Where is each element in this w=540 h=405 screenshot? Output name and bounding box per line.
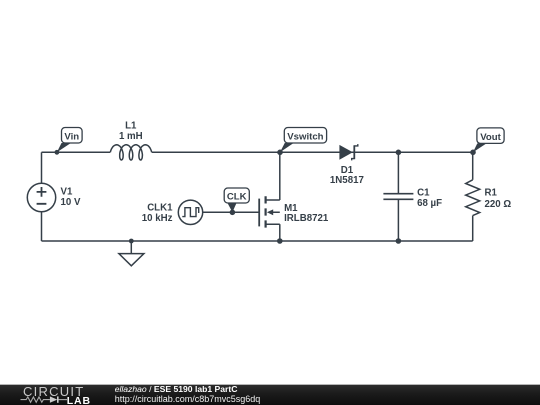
wire R1 bottom bbox=[472, 216, 474, 241]
diode D1 (schottky) bbox=[339, 144, 357, 160]
wire CLK1 to gate bbox=[203, 211, 260, 213]
svg-text:Vin: Vin bbox=[64, 132, 79, 143]
svg-text:L1: L1 bbox=[125, 120, 137, 131]
svg-text:Vout: Vout bbox=[480, 132, 501, 143]
footer author/title line bbox=[115, 384, 238, 394]
node flag Vin bbox=[55, 128, 83, 155]
svg-text:10 V: 10 V bbox=[61, 197, 81, 208]
value label M1 / IRLB8721 bbox=[284, 203, 329, 224]
wire M1 source to bottom rail bbox=[279, 224, 281, 241]
svg-text:LAB: LAB bbox=[67, 395, 91, 405]
value label R1 / 220 Ohm bbox=[485, 188, 512, 211]
inductor L1 bbox=[110, 145, 151, 160]
ground bbox=[119, 241, 144, 266]
svg-text:10 kHz: 10 kHz bbox=[142, 213, 173, 224]
footer bar bbox=[0, 384, 540, 405]
wire bottom rail bbox=[42, 240, 473, 242]
node flag Vout bbox=[470, 128, 504, 155]
value label C1 / 68 uF bbox=[417, 188, 442, 210]
footer url line bbox=[115, 394, 261, 404]
logo CIRCUIT text bbox=[23, 384, 84, 399]
svg-text:220 Ω: 220 Ω bbox=[485, 199, 512, 210]
clock source CLK1 bbox=[178, 200, 202, 224]
svg-text:V1: V1 bbox=[61, 187, 73, 198]
wire top left vertical (Vin rail to V1 top) bbox=[41, 152, 43, 183]
junction dot M1 source bbox=[277, 238, 283, 244]
transistor M1 (NMOS) bbox=[259, 196, 280, 227]
value label CLK1 / 10 kHz bbox=[142, 202, 173, 224]
wire V1 bottom to bottom rail bbox=[41, 212, 43, 241]
value label V1 / 10 V bbox=[61, 187, 81, 209]
svg-text:Vswitch: Vswitch bbox=[287, 132, 323, 143]
svg-text:68 µF: 68 µF bbox=[417, 198, 442, 209]
svg-text:1 mH: 1 mH bbox=[119, 131, 143, 142]
svg-text:http://circuitlab.com/c8b7mvc5: http://circuitlab.com/c8b7mvc5sg6dq bbox=[115, 394, 261, 404]
logo resistor+diode decoration bbox=[21, 396, 68, 402]
svg-text:R1: R1 bbox=[485, 188, 498, 199]
value label L1 / 1 mH bbox=[119, 120, 143, 142]
node flag Vswitch (junction) bbox=[277, 128, 326, 156]
svg-text:C1: C1 bbox=[417, 188, 430, 199]
wire top rail from inductor to Vout corner bbox=[152, 151, 473, 153]
wire M1 drain to Vswitch node bbox=[279, 152, 281, 200]
node flag CLK bbox=[224, 188, 249, 215]
svg-text:1N5817: 1N5817 bbox=[330, 175, 364, 186]
resistor R1 zigzag bbox=[466, 180, 480, 216]
capacitor C1 bbox=[383, 152, 413, 241]
value label D1 / 1N5817 bbox=[330, 165, 364, 186]
wire top rail left segment bbox=[42, 151, 111, 153]
logo LAB text bbox=[67, 395, 91, 405]
svg-text:ellazhao / ESE 5190 lab1 PartC: ellazhao / ESE 5190 lab1 PartC bbox=[115, 384, 238, 394]
wire right vertical to R1 bbox=[472, 152, 474, 180]
junction dot ground bbox=[129, 239, 134, 244]
svg-text:IRLB8721: IRLB8721 bbox=[284, 213, 329, 224]
voltage source V1 bbox=[27, 183, 55, 211]
svg-text:CLK1: CLK1 bbox=[147, 202, 173, 213]
junction dot C1 bottom bbox=[396, 238, 402, 244]
junction dot C1 top bbox=[396, 150, 402, 156]
svg-text:CLK: CLK bbox=[227, 191, 247, 202]
